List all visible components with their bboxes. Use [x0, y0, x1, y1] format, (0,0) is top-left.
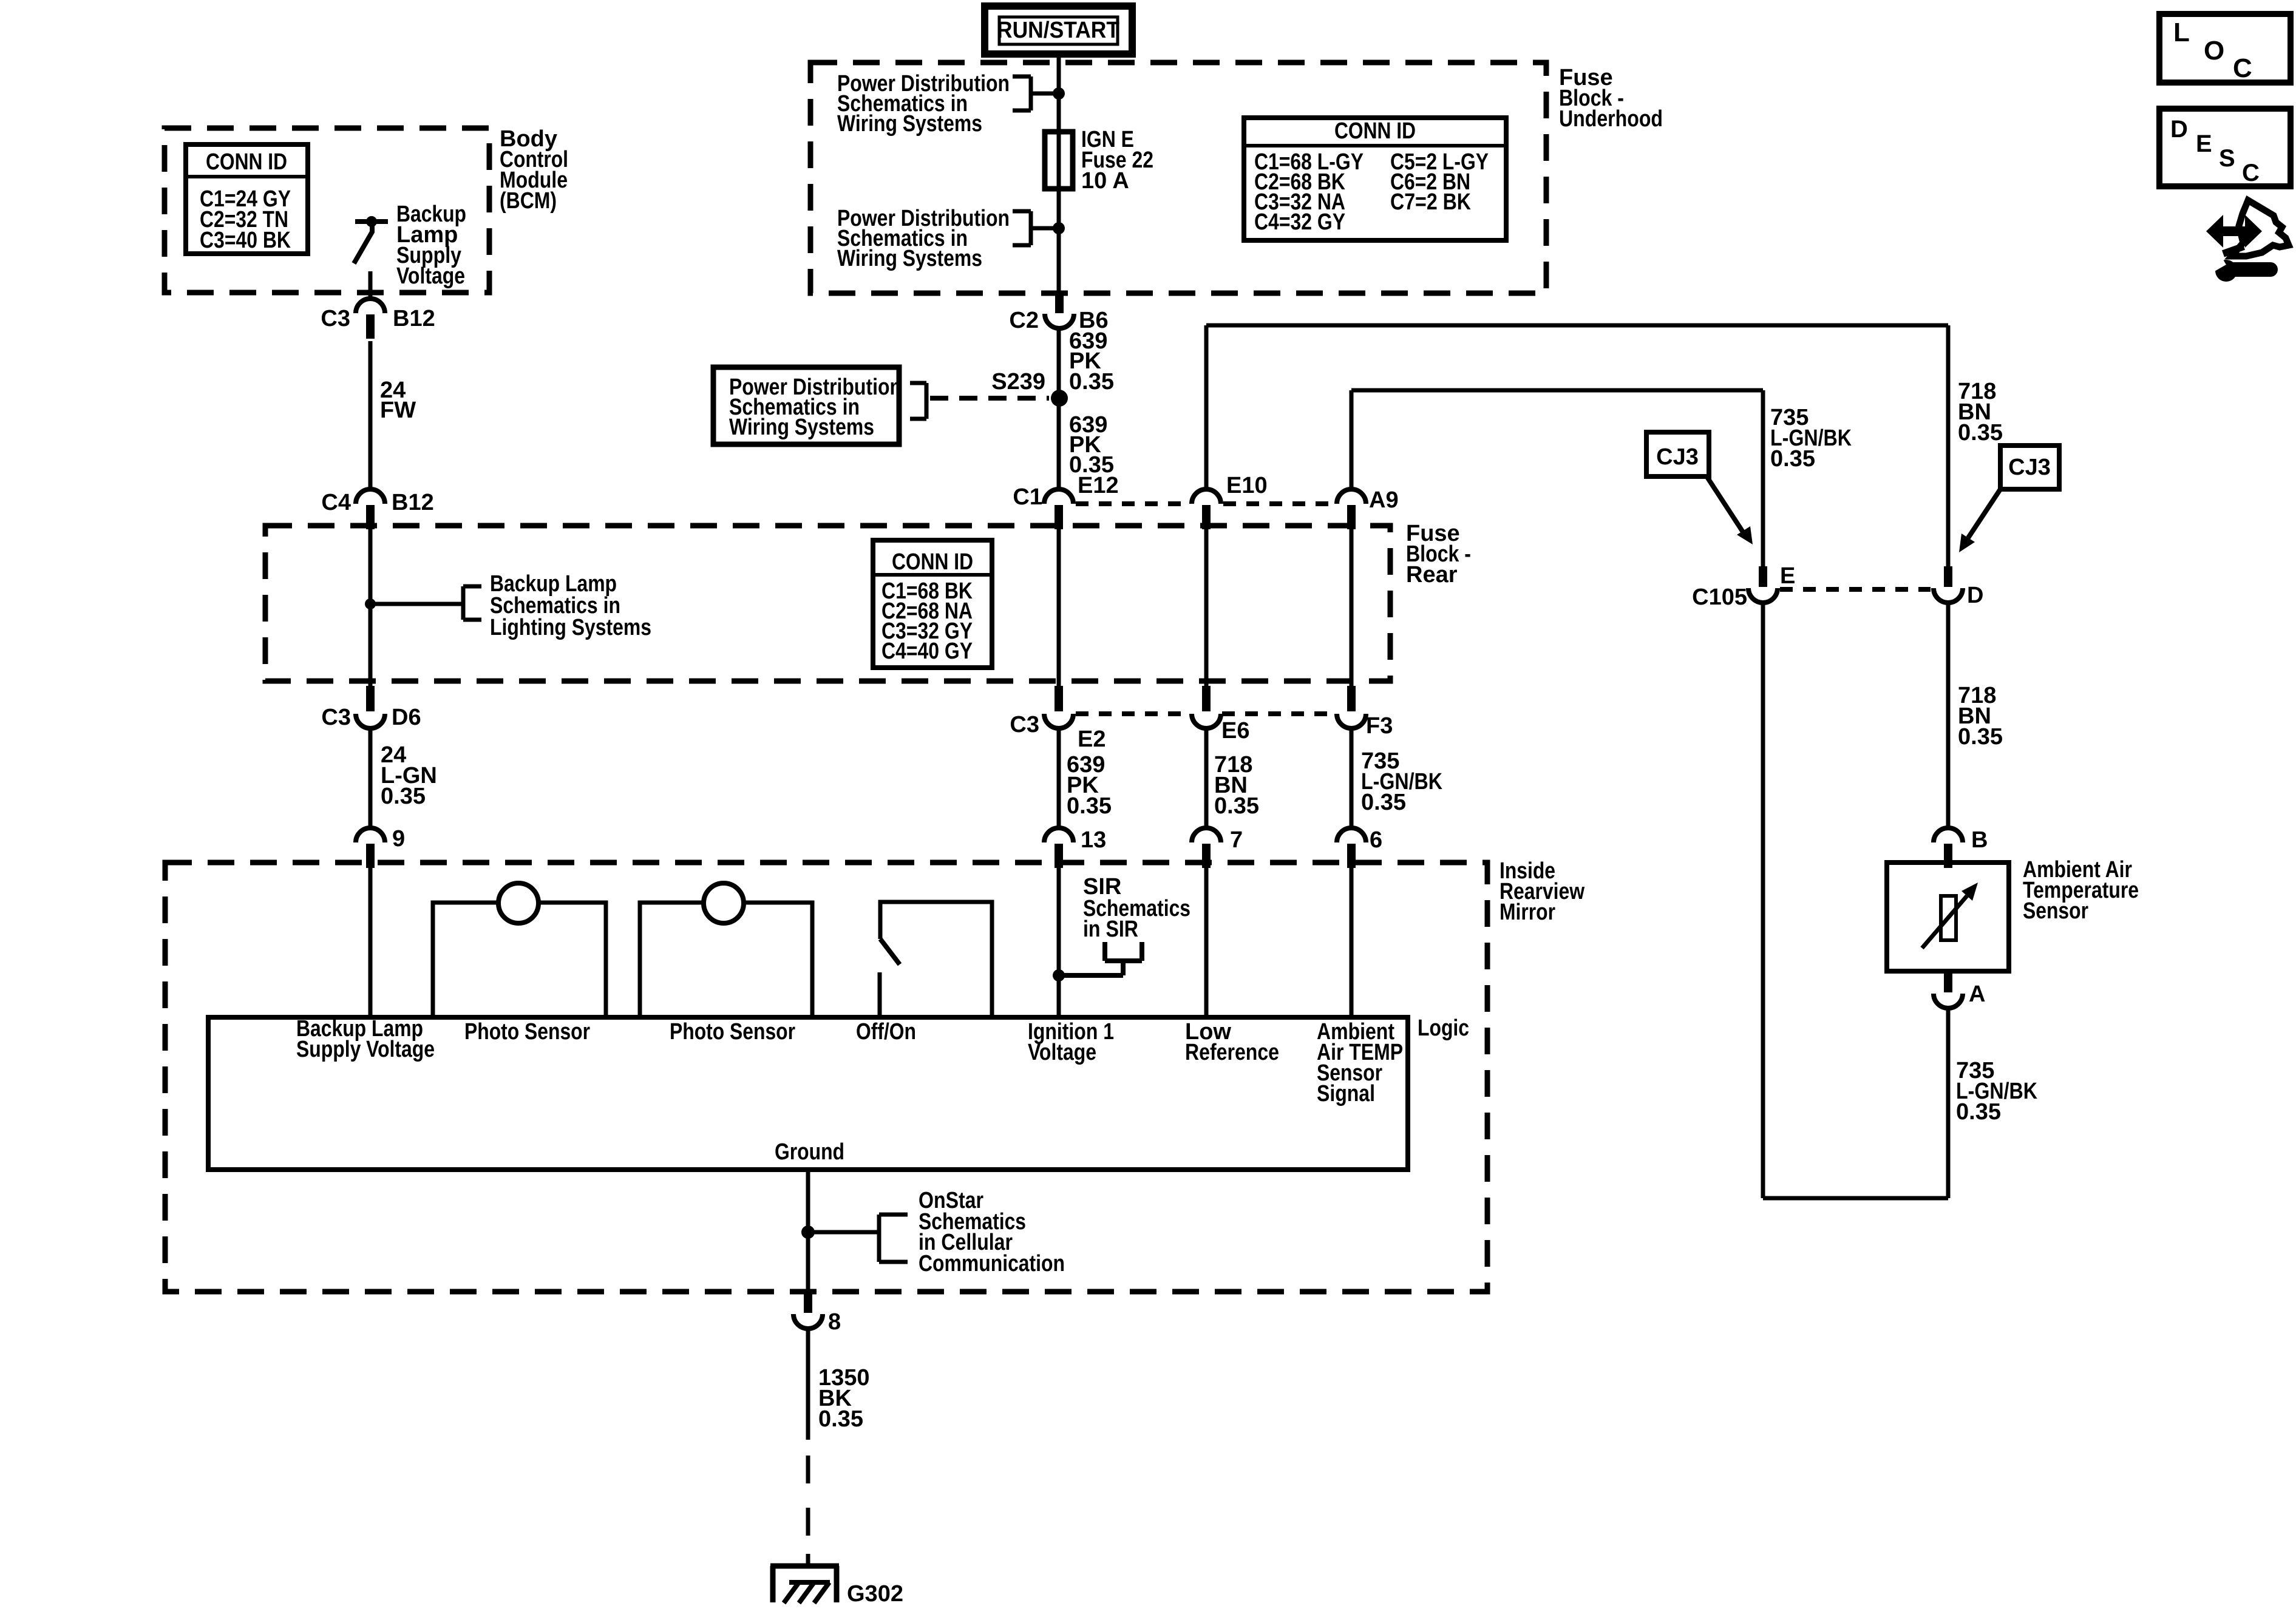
svg-text:0.35: 0.35: [1770, 446, 1815, 472]
svg-text:7: 7: [1230, 827, 1243, 853]
svg-text:C4=32 GY: C4=32 GY: [1254, 209, 1345, 235]
svg-text:CONN ID: CONN ID: [1334, 118, 1416, 144]
svg-text:Wiring Systems: Wiring Systems: [837, 111, 982, 137]
svg-text:Communication: Communication: [919, 1251, 1065, 1276]
svg-text:Wiring Systems: Wiring Systems: [837, 246, 982, 271]
svg-text:F3: F3: [1366, 713, 1393, 739]
svg-text:6: 6: [1370, 827, 1382, 853]
svg-text:E2: E2: [1078, 727, 1106, 752]
svg-text:C3: C3: [321, 705, 351, 730]
svg-text:E10: E10: [1226, 473, 1268, 498]
svg-text:C4=40 GY: C4=40 GY: [881, 639, 973, 664]
svg-text:0.35: 0.35: [1958, 724, 2003, 750]
svg-text:Voltage: Voltage: [1028, 1040, 1096, 1065]
svg-text:in SIR: in SIR: [1083, 917, 1138, 942]
svg-text:C3=40 BK: C3=40 BK: [200, 228, 291, 253]
svg-text:C3: C3: [1010, 712, 1039, 737]
svg-text:9: 9: [392, 826, 405, 852]
svg-text:Supply Voltage: Supply Voltage: [296, 1037, 435, 1062]
svg-text:B12: B12: [393, 306, 435, 331]
svg-text:C4: C4: [321, 490, 351, 515]
svg-text:CONN ID: CONN ID: [892, 549, 973, 575]
svg-text:D: D: [2170, 116, 2188, 143]
svg-text:0.35: 0.35: [1214, 793, 1259, 819]
svg-text:B: B: [1971, 827, 1988, 853]
svg-text:Lighting Systems: Lighting Systems: [490, 615, 651, 640]
svg-text:CONN ID: CONN ID: [206, 149, 287, 175]
svg-text:Signal: Signal: [1317, 1081, 1375, 1107]
svg-text:Photo Sensor: Photo Sensor: [670, 1019, 795, 1045]
svg-text:C1: C1: [1013, 484, 1042, 510]
svg-text:D: D: [1967, 583, 1983, 608]
svg-text:Photo Sensor: Photo Sensor: [464, 1019, 590, 1045]
svg-text:(BCM): (BCM): [500, 188, 557, 214]
svg-text:0.35: 0.35: [1958, 420, 2003, 446]
svg-text:10 A: 10 A: [1081, 168, 1129, 194]
svg-text:E: E: [2196, 130, 2212, 157]
svg-text:Voltage: Voltage: [396, 263, 465, 289]
svg-text:E12: E12: [1078, 473, 1119, 498]
svg-text:D6: D6: [392, 705, 421, 730]
svg-text:C7=2 BK: C7=2 BK: [1390, 189, 1471, 215]
svg-text:0.35: 0.35: [381, 784, 426, 809]
svg-text:CJ3: CJ3: [1656, 444, 1699, 470]
svg-text:0.35: 0.35: [818, 1406, 863, 1432]
svg-text:13: 13: [1081, 827, 1106, 853]
svg-text:L: L: [2173, 18, 2190, 47]
svg-text:Mirror: Mirror: [1500, 900, 1555, 925]
svg-text:A: A: [1969, 981, 1985, 1007]
svg-text:Logic: Logic: [1418, 1015, 1469, 1041]
svg-text:Reference: Reference: [1185, 1040, 1279, 1065]
svg-text:E6: E6: [1221, 718, 1249, 744]
svg-text:Off/On: Off/On: [856, 1019, 916, 1045]
svg-text:Rear: Rear: [1406, 562, 1458, 588]
svg-text:S: S: [2219, 145, 2235, 172]
svg-text:A9: A9: [1369, 487, 1399, 513]
svg-text:Wiring Systems: Wiring Systems: [729, 415, 874, 440]
svg-text:8: 8: [828, 1309, 841, 1335]
svg-text:FW: FW: [380, 398, 416, 423]
svg-text:Sensor: Sensor: [2023, 898, 2088, 924]
svg-text:B12: B12: [392, 490, 434, 515]
svg-text:C2: C2: [1009, 308, 1039, 333]
svg-text:Ground: Ground: [775, 1139, 844, 1165]
svg-text:RUN/START: RUN/START: [997, 18, 1119, 43]
svg-text:C: C: [2233, 53, 2252, 83]
svg-text:0.35: 0.35: [1956, 1099, 2001, 1125]
svg-text:CJ3: CJ3: [2008, 455, 2051, 480]
svg-text:0.35: 0.35: [1069, 369, 1114, 395]
svg-text:S239: S239: [991, 369, 1045, 395]
svg-text:0.35: 0.35: [1067, 793, 1112, 819]
svg-text:Underhood: Underhood: [1559, 106, 1663, 132]
svg-text:E: E: [1780, 563, 1795, 589]
svg-text:C: C: [2242, 160, 2260, 186]
svg-text:O: O: [2204, 36, 2224, 66]
svg-text:C3: C3: [321, 306, 350, 331]
svg-text:0.35: 0.35: [1361, 790, 1406, 815]
svg-text:C105: C105: [1692, 585, 1747, 610]
svg-text:G302: G302: [847, 1581, 903, 1607]
